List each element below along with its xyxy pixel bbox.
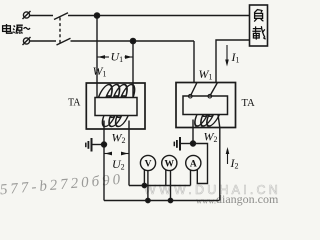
电 bbox=[3, 26, 11, 32]
transformer TA1 core window bbox=[95, 98, 137, 116]
switch linkage dashed bbox=[59, 18, 61, 45]
meter A bbox=[186, 155, 201, 170]
wire riser x97 to left TA primary bbox=[96, 16, 98, 98]
winding W2 right coil bbox=[192, 115, 220, 127]
node V left bbox=[142, 183, 146, 187]
primary bar diagonal 1 bbox=[191, 83, 197, 96]
svg-text:TA: TA bbox=[242, 98, 256, 109]
ground symbol left bbox=[92, 144, 104, 146]
meter V bbox=[140, 155, 155, 170]
arrow I1 bbox=[225, 45, 229, 67]
wire line2 to x194 bbox=[71, 40, 195, 42]
wire W2 right-left terminal drop x193 bbox=[192, 120, 194, 144]
svg-text:W: W bbox=[165, 160, 175, 170]
wire W2 right terminal drop x129 bbox=[128, 121, 130, 186]
node junction top line bbox=[94, 13, 99, 18]
wire source1 to switch bbox=[30, 15, 53, 17]
wire V left stub bbox=[143, 170, 145, 186]
wire load bottom to right TA bbox=[216, 40, 250, 83]
label 载 (load char 2) bbox=[252, 26, 265, 39]
arrow U1 bbox=[97, 55, 133, 59]
wire W left stub bbox=[165, 170, 167, 186]
label source 电源~ (hand-drawn glyphs) bbox=[3, 24, 30, 34]
node junction line2 bbox=[130, 38, 135, 43]
node ground junction left bbox=[102, 142, 107, 147]
wire CT sec left to A right stub bbox=[193, 144, 208, 184]
wire source2 to switch bbox=[30, 40, 56, 42]
wire top line to load bbox=[68, 15, 250, 17]
transformer TA2 outer box bbox=[176, 83, 236, 128]
winding W1 left coil bbox=[99, 85, 138, 98]
wire A left stub bbox=[190, 170, 192, 185]
wire W2 left terminal drop x104 bbox=[103, 121, 105, 201]
node ground junction right bbox=[191, 141, 196, 146]
ground symbol right bbox=[181, 143, 194, 145]
switch blade top bbox=[54, 13, 68, 20]
load box bbox=[250, 5, 268, 46]
~ bbox=[24, 27, 30, 29]
winding W2 left coil bbox=[100, 116, 129, 127]
svg-text:V: V bbox=[145, 160, 152, 170]
node W mid on bus bbox=[168, 198, 172, 202]
label 负 (load char 1) bbox=[254, 9, 263, 21]
transformer TA2 core window bbox=[183, 96, 228, 115]
source terminal 1 bbox=[23, 12, 29, 18]
源 bbox=[13, 26, 15, 34]
transformer TA1 outer box bbox=[86, 83, 145, 129]
arrow I2 bbox=[226, 147, 230, 164]
wire W mid stub bbox=[170, 171, 172, 201]
node V right on bus bbox=[146, 198, 150, 202]
wire voltage line L1 bbox=[129, 185, 191, 187]
source terminal 2 bbox=[23, 38, 29, 44]
wire V right stub bbox=[147, 170, 149, 200]
arrow U2 bbox=[104, 152, 129, 156]
svg-text:A: A bbox=[190, 160, 197, 170]
wire W2 right-right terminal to x219.5 bbox=[218, 115, 220, 201]
svg-text:TA: TA bbox=[68, 98, 81, 109]
meter W bbox=[162, 155, 177, 170]
switch blade bottom bbox=[57, 38, 71, 45]
primary bar diagonal 2 bbox=[210, 83, 217, 96]
wire line2 drop x194 to right TA bbox=[193, 41, 195, 83]
wire bottom return bus bbox=[104, 200, 220, 202]
wire riser x133 to left TA primary bbox=[132, 41, 134, 98]
